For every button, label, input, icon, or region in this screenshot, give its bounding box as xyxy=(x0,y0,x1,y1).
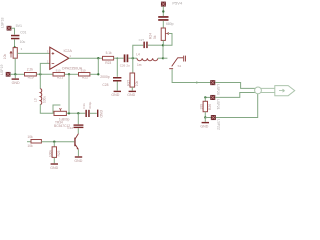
wire xyxy=(53,142,55,147)
svg-text:GND: GND xyxy=(200,124,208,128)
wire feedback drop xyxy=(97,58,99,74)
svg-text:L3: L3 xyxy=(33,98,37,102)
pin 5V1 xyxy=(7,24,22,30)
svg-text:100k: 100k xyxy=(49,150,53,157)
resistor R19 xyxy=(25,67,37,79)
svg-text:910: 910 xyxy=(81,68,86,72)
pin LSP19 xyxy=(6,72,10,76)
node base xyxy=(53,141,55,143)
wire L3 column xyxy=(39,74,41,89)
svg-text:GND: GND xyxy=(74,159,82,163)
wire row1 to jack xyxy=(215,83,255,89)
svg-text:5.1k: 5.1k xyxy=(106,51,112,55)
wire xyxy=(204,97,206,101)
node C27 right xyxy=(162,44,164,46)
wire xyxy=(131,87,133,91)
ground xyxy=(200,122,209,128)
capacitor C26 xyxy=(120,54,130,67)
svg-text:10u: 10u xyxy=(20,40,26,44)
pin P5V4 xyxy=(161,1,183,7)
svg-text:GND: GND xyxy=(127,93,135,97)
svg-text:S1: S1 xyxy=(178,64,182,68)
svg-text:600p: 600p xyxy=(88,101,92,108)
svg-text:100: 100 xyxy=(200,104,204,110)
wire xyxy=(148,44,163,46)
pin LSP22 xyxy=(211,115,221,130)
svg-text:LSP21: LSP21 xyxy=(216,99,220,110)
wire xyxy=(41,141,74,143)
svg-text:R25: R25 xyxy=(57,150,61,156)
svg-text:R23: R23 xyxy=(105,61,111,65)
svg-text:R24: R24 xyxy=(148,33,152,39)
svg-text:C26: C26 xyxy=(120,64,126,68)
wire xyxy=(40,104,54,113)
svg-text:R27: R27 xyxy=(127,80,131,86)
capacitor C25 xyxy=(158,16,173,26)
svg-text:C11: C11 xyxy=(82,103,86,109)
wire xyxy=(11,28,14,34)
svg-text:5V1: 5V1 xyxy=(16,24,22,28)
node R26 bottom xyxy=(204,116,206,118)
wire xyxy=(128,57,137,59)
wire xyxy=(64,73,78,75)
wire xyxy=(36,73,53,75)
wire xyxy=(77,150,79,157)
wire xyxy=(162,6,164,16)
wire riser to inverting input xyxy=(40,63,50,74)
svg-text:2000p: 2000p xyxy=(100,75,110,79)
wire R27 drop xyxy=(132,58,134,73)
wire wiper loop xyxy=(163,34,172,46)
node R26 top xyxy=(204,96,206,98)
wire row2 xyxy=(205,96,210,98)
transistor T3 BC547 xyxy=(74,134,78,150)
potentiometer R17 xyxy=(3,47,22,59)
wire xyxy=(204,112,206,118)
svg-text:IC2A: IC2A xyxy=(64,49,73,53)
svg-text:LSP19: LSP19 xyxy=(0,64,4,75)
wire xyxy=(158,57,163,59)
svg-text:GND: GND xyxy=(50,166,58,170)
svg-text:L4: L4 xyxy=(136,52,140,56)
svg-text:C27: C27 xyxy=(139,38,145,42)
svg-text:C28: C28 xyxy=(102,83,108,87)
svg-text:LSP20: LSP20 xyxy=(216,84,220,95)
wire wiper to op-amp xyxy=(17,52,50,54)
capacitor C11 xyxy=(82,101,92,117)
wire switch drop xyxy=(172,69,210,82)
pin LSP20 xyxy=(211,80,221,95)
wire gnd stem xyxy=(204,118,206,122)
wire row3 to jack sleeve xyxy=(216,94,258,118)
node C28 tap xyxy=(117,57,119,59)
wire trimmer bottom xyxy=(162,40,164,45)
svg-text:OPA2350UA: OPA2350UA xyxy=(62,67,83,71)
wire wiper loop xyxy=(53,105,60,113)
wire output xyxy=(69,57,103,59)
ground rotated xyxy=(97,110,103,118)
inductor L3 xyxy=(33,89,46,105)
node R21-R22 xyxy=(68,73,70,75)
wire trimmer column xyxy=(162,45,164,58)
node L4 left xyxy=(132,57,134,59)
ground xyxy=(127,91,136,98)
wire C12 drop xyxy=(77,113,79,124)
svg-text:100u: 100u xyxy=(43,96,47,103)
wire xyxy=(66,112,85,114)
node feedback right xyxy=(97,73,99,75)
wire xyxy=(162,21,164,28)
ground xyxy=(74,156,82,163)
node xyxy=(162,10,164,12)
wire xyxy=(90,112,97,114)
switch S1 xyxy=(163,56,185,69)
svg-text:2u: 2u xyxy=(126,64,130,68)
svg-text:P5V4: P5V4 xyxy=(172,1,183,6)
ground xyxy=(50,163,58,170)
svg-text:LSP18: LSP18 xyxy=(1,17,5,28)
wire xyxy=(90,73,98,75)
svg-text:LSP22: LSP22 xyxy=(217,119,221,130)
wire xyxy=(14,39,16,47)
wire gnd stem xyxy=(14,74,16,78)
wire xyxy=(77,128,79,133)
capacitor C12 xyxy=(67,124,83,129)
svg-text:10k: 10k xyxy=(27,144,33,148)
wire pot bottom xyxy=(14,58,16,74)
wire row2 to jack xyxy=(215,93,255,98)
svg-text:10k: 10k xyxy=(27,135,33,139)
resistor R27 xyxy=(127,73,140,87)
wire C28 drop xyxy=(116,58,118,77)
svg-text:680p: 680p xyxy=(166,22,174,26)
svg-text:C01: C01 xyxy=(20,30,26,34)
resistor R26 xyxy=(200,101,212,111)
capacitor C27 xyxy=(139,38,148,48)
inductor L4 xyxy=(136,52,158,67)
svg-text:1m: 1m xyxy=(137,63,142,67)
ground xyxy=(12,78,20,85)
wire xyxy=(10,73,24,75)
svg-text:R21: R21 xyxy=(57,76,63,80)
resistor R22 xyxy=(79,68,90,79)
trimmer TR3 xyxy=(54,108,70,128)
node C12 tap xyxy=(77,112,79,114)
wire drop from feedback node xyxy=(68,74,70,113)
node pot top xyxy=(14,46,16,48)
svg-text:2.2k: 2.2k xyxy=(27,67,34,71)
node from R21-R22 xyxy=(68,112,70,114)
svg-text:910: 910 xyxy=(56,68,61,72)
capacitor C01 xyxy=(11,30,27,44)
wire base row xyxy=(27,141,31,143)
svg-text:R19: R19 xyxy=(28,76,34,80)
svg-text:GND: GND xyxy=(99,110,103,118)
wire C27 riser xyxy=(133,45,143,58)
resistor R25 xyxy=(49,147,61,158)
svg-text:5k: 5k xyxy=(153,35,157,39)
wire xyxy=(116,82,118,91)
wire xyxy=(53,158,55,164)
node GND junction xyxy=(14,73,16,75)
node L4 right xyxy=(162,57,164,59)
svg-text:10k: 10k xyxy=(3,54,7,60)
resistor R20 xyxy=(27,135,41,148)
wire xyxy=(114,57,124,59)
capacitor C28 xyxy=(100,75,121,87)
node output xyxy=(97,57,99,59)
op-amp IC2A xyxy=(47,47,83,70)
svg-text:10k: 10k xyxy=(135,81,139,87)
ground xyxy=(111,91,121,98)
svg-text:GND: GND xyxy=(12,81,20,85)
trimmer R24 xyxy=(148,28,168,40)
wire row3 xyxy=(205,117,211,119)
svg-text:GND: GND xyxy=(111,93,119,97)
wire joint tick xyxy=(196,81,198,83)
svg-text:R22: R22 xyxy=(82,76,88,80)
pin LSP21 xyxy=(211,95,221,110)
node feedback left xyxy=(39,73,41,75)
jack X1 xyxy=(255,86,295,96)
svg-text:C12: C12 xyxy=(67,126,73,130)
resistor R21 xyxy=(53,68,64,79)
resistor R23 xyxy=(103,51,114,65)
svg-text:R26: R26 xyxy=(208,104,212,110)
